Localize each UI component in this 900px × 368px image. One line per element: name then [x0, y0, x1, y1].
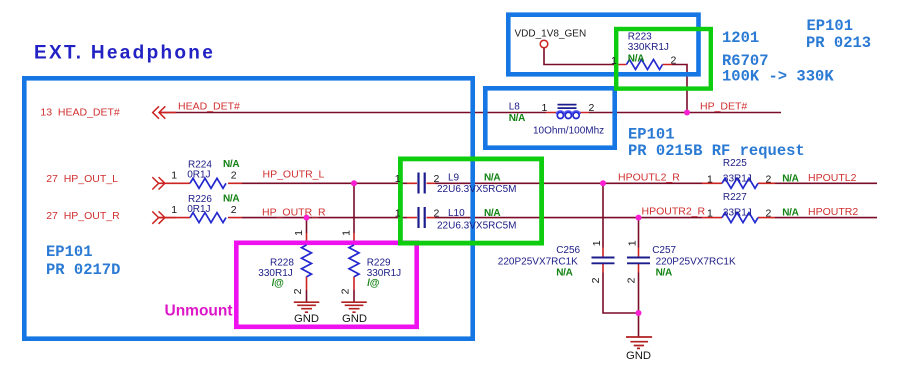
- svg-text:HP_OUTR_R: HP_OUTR_R: [262, 206, 326, 218]
- svg-text:1: 1: [395, 207, 401, 219]
- svg-text:HP_OUTR_L: HP_OUTR_L: [263, 169, 325, 181]
- wire HP_OUTR_L red pin stubs: [159, 182, 776, 184]
- wire branch row R to R228: [306, 218, 308, 233]
- resistor R223 zigzag: [627, 60, 663, 70]
- wire C257 bottom to GND: [638, 273, 640, 338]
- svg-text:1: 1: [171, 204, 177, 216]
- svg-text:1: 1: [707, 208, 713, 220]
- ground symbol under C257: [626, 337, 652, 348]
- svg-text:C257: C257: [652, 245, 676, 256]
- wire branch row R to C257: [638, 218, 640, 248]
- svg-text:2: 2: [766, 208, 772, 220]
- svg-text:N/A: N/A: [223, 159, 239, 170]
- ferrite bead L8 core lines: [558, 105, 577, 109]
- svg-text:2: 2: [292, 288, 304, 294]
- svg-text:2: 2: [340, 288, 352, 294]
- svg-text:1: 1: [591, 240, 603, 246]
- blue highlight box VDD_1V8_GEN / R223: [508, 15, 698, 75]
- blue highlight box L8: [485, 88, 614, 147]
- ferrite bead L8 coil circles: [557, 112, 563, 118]
- svg-text:1: 1: [542, 102, 548, 114]
- resistor R224 zigzag: [190, 178, 226, 188]
- svg-text:2: 2: [626, 277, 638, 283]
- wire L8 pin stubs (red): [546, 112, 589, 114]
- wire R229 pin2 to GND: [353, 277, 355, 291]
- wire VDD_1V8_GEN to R223 pin1: [544, 48, 618, 65]
- green highlight box R223: [616, 29, 711, 89]
- svg-text:220P25VX7RC1K: 220P25VX7RC1K: [656, 256, 736, 267]
- svg-text:N/A: N/A: [782, 208, 798, 219]
- wire R223 pin stubs (red): [618, 64, 673, 66]
- svg-text:L9: L9: [448, 173, 460, 184]
- capacitor C257 plates: [627, 258, 650, 264]
- svg-text:C256: C256: [556, 245, 580, 256]
- resistor R225 zigzag: [722, 178, 758, 188]
- svg-text:27 HP_OUT_R: 27 HP_OUT_R: [46, 210, 120, 222]
- magenta highlight box Unmount R228 R229: [236, 243, 416, 327]
- junction C256 / C257 ground net: [636, 310, 642, 316]
- svg-text:R228: R228: [270, 257, 294, 268]
- junction row R / R228 branch: [304, 215, 310, 221]
- svg-text:2: 2: [589, 102, 595, 114]
- svg-text:1: 1: [627, 240, 639, 246]
- svg-text:N/A: N/A: [509, 113, 525, 124]
- svg-text:GND: GND: [342, 313, 367, 325]
- junction HP_DET# / R223: [684, 110, 690, 116]
- svg-text:/@: /@: [272, 278, 284, 289]
- svg-text:330KR1J: 330KR1J: [628, 42, 669, 53]
- svg-text:2: 2: [434, 207, 440, 219]
- svg-text:HPOUTR2_R: HPOUTR2_R: [642, 206, 706, 218]
- svg-text:N/A: N/A: [782, 174, 798, 185]
- wire branch row L to C256: [602, 183, 604, 247]
- svg-text:HEAD_DET#: HEAD_DET#: [178, 101, 240, 113]
- wire HP_OUTR_L row: [242, 182, 877, 184]
- capacitor C256 plates: [592, 258, 615, 264]
- ground symbol under R228: [294, 302, 320, 312]
- svg-text:1: 1: [611, 55, 617, 67]
- svg-text:22U6.3VX5RC5M: 22U6.3VX5RC5M: [437, 184, 516, 195]
- wire HEAD_DET# / HP_DET# horizontal net: [160, 112, 782, 114]
- svg-text:/@: /@: [367, 278, 379, 289]
- resistor R229 vertical zigzag: [349, 245, 359, 277]
- wire branch row L to R229: [353, 183, 355, 233]
- wire C256 bottom to junction: [603, 273, 639, 314]
- resistor R228 vertical zigzag: [302, 245, 312, 277]
- svg-text:Unmount: Unmount: [165, 302, 233, 319]
- svg-text:2: 2: [434, 173, 440, 185]
- svg-text:0R1J: 0R1J: [187, 204, 210, 215]
- svg-text:220P25VX7RC1K: 220P25VX7RC1K: [498, 256, 578, 267]
- svg-text:L10: L10: [448, 208, 465, 219]
- svg-text:13 HEAD_DET#: 13 HEAD_DET#: [40, 107, 120, 119]
- svg-text:HPOUTR2: HPOUTR2: [808, 206, 858, 218]
- svg-text:GND: GND: [294, 313, 319, 325]
- svg-text:0R1J: 0R1J: [187, 170, 210, 181]
- power symbol VDD_1V8_GEN terminal circle: [540, 40, 548, 48]
- off-page connector chevron HP_OUT_L (output): [152, 177, 176, 189]
- svg-text:HP_DET#: HP_DET#: [700, 101, 747, 113]
- svg-text:EP101: EP101: [807, 17, 854, 35]
- svg-text:N/A: N/A: [656, 267, 672, 278]
- svg-text:HPOUTL2_R: HPOUTL2_R: [618, 172, 680, 184]
- green highlight box L9 L10: [400, 159, 541, 243]
- svg-text:2: 2: [231, 204, 237, 216]
- resistor R226 zigzag: [190, 213, 226, 223]
- svg-text:100K -> 330K: 100K -> 330K: [722, 68, 834, 86]
- resistor R227 zigzag: [722, 213, 758, 223]
- junction row R / C257 branch: [636, 215, 642, 221]
- svg-text:2: 2: [231, 170, 237, 182]
- wire HP_OUTR_R row: [242, 217, 877, 219]
- off-page connector chevron HEAD_DET# (input): [153, 106, 176, 118]
- svg-text:1: 1: [341, 230, 353, 236]
- svg-text:VDD_1V8_GEN: VDD_1V8_GEN: [515, 29, 587, 40]
- junction row L / R229 branch: [351, 180, 357, 186]
- svg-text:R227: R227: [723, 192, 747, 203]
- ground symbol under R229: [341, 302, 367, 312]
- svg-text:1: 1: [293, 230, 305, 236]
- svg-text:2: 2: [766, 174, 772, 186]
- svg-text:PR 0213: PR 0213: [806, 34, 871, 52]
- svg-text:N/A: N/A: [628, 54, 644, 65]
- svg-text:N/A: N/A: [556, 267, 572, 278]
- svg-text:R229: R229: [367, 257, 391, 268]
- svg-text:33R1J: 33R1J: [723, 174, 752, 185]
- svg-text:PR 0215B RF request: PR 0215B RF request: [628, 142, 805, 160]
- svg-text:1: 1: [707, 174, 713, 186]
- svg-text:EP101: EP101: [628, 126, 675, 144]
- wire HP_OUTR_R red pin stubs: [159, 217, 776, 219]
- wire R223 pin2 down to HP_DET# net: [672, 65, 687, 113]
- svg-text:R223: R223: [628, 31, 652, 42]
- off-page connector chevron HP_OUT_R (output): [152, 211, 176, 223]
- ferrite bead L8 coil arcs: [556, 111, 580, 114]
- svg-text:22U6.3VX5RC5M: 22U6.3VX5RC5M: [437, 221, 516, 232]
- svg-text:HPOUTL2: HPOUTL2: [808, 172, 857, 184]
- svg-text:1: 1: [171, 170, 177, 182]
- svg-text:2: 2: [671, 55, 677, 67]
- wire R228 pin2 to GND: [306, 277, 308, 291]
- svg-text:EP101: EP101: [46, 243, 93, 261]
- svg-text:27 HP_OUT_L: 27 HP_OUT_L: [46, 173, 118, 185]
- svg-text:L8: L8: [509, 102, 521, 113]
- svg-text:N/A: N/A: [484, 173, 500, 184]
- svg-text:33R1J: 33R1J: [723, 208, 752, 219]
- junction row L / C256 branch: [600, 180, 606, 186]
- svg-text:PR 0217D: PR 0217D: [46, 261, 120, 279]
- capacitor L9 plates: [419, 173, 425, 194]
- svg-text:2: 2: [590, 277, 602, 283]
- svg-text:EXT. Headphone: EXT. Headphone: [34, 43, 215, 64]
- capacitor L10 plates: [419, 207, 425, 228]
- svg-text:1201: 1201: [722, 29, 759, 47]
- svg-text:N/A: N/A: [484, 208, 500, 219]
- blue highlight box main EXT headphone block: [24, 78, 472, 338]
- svg-text:GND: GND: [626, 350, 651, 362]
- svg-text:10Ohm/100Mhz: 10Ohm/100Mhz: [533, 126, 604, 137]
- svg-text:1: 1: [395, 173, 401, 185]
